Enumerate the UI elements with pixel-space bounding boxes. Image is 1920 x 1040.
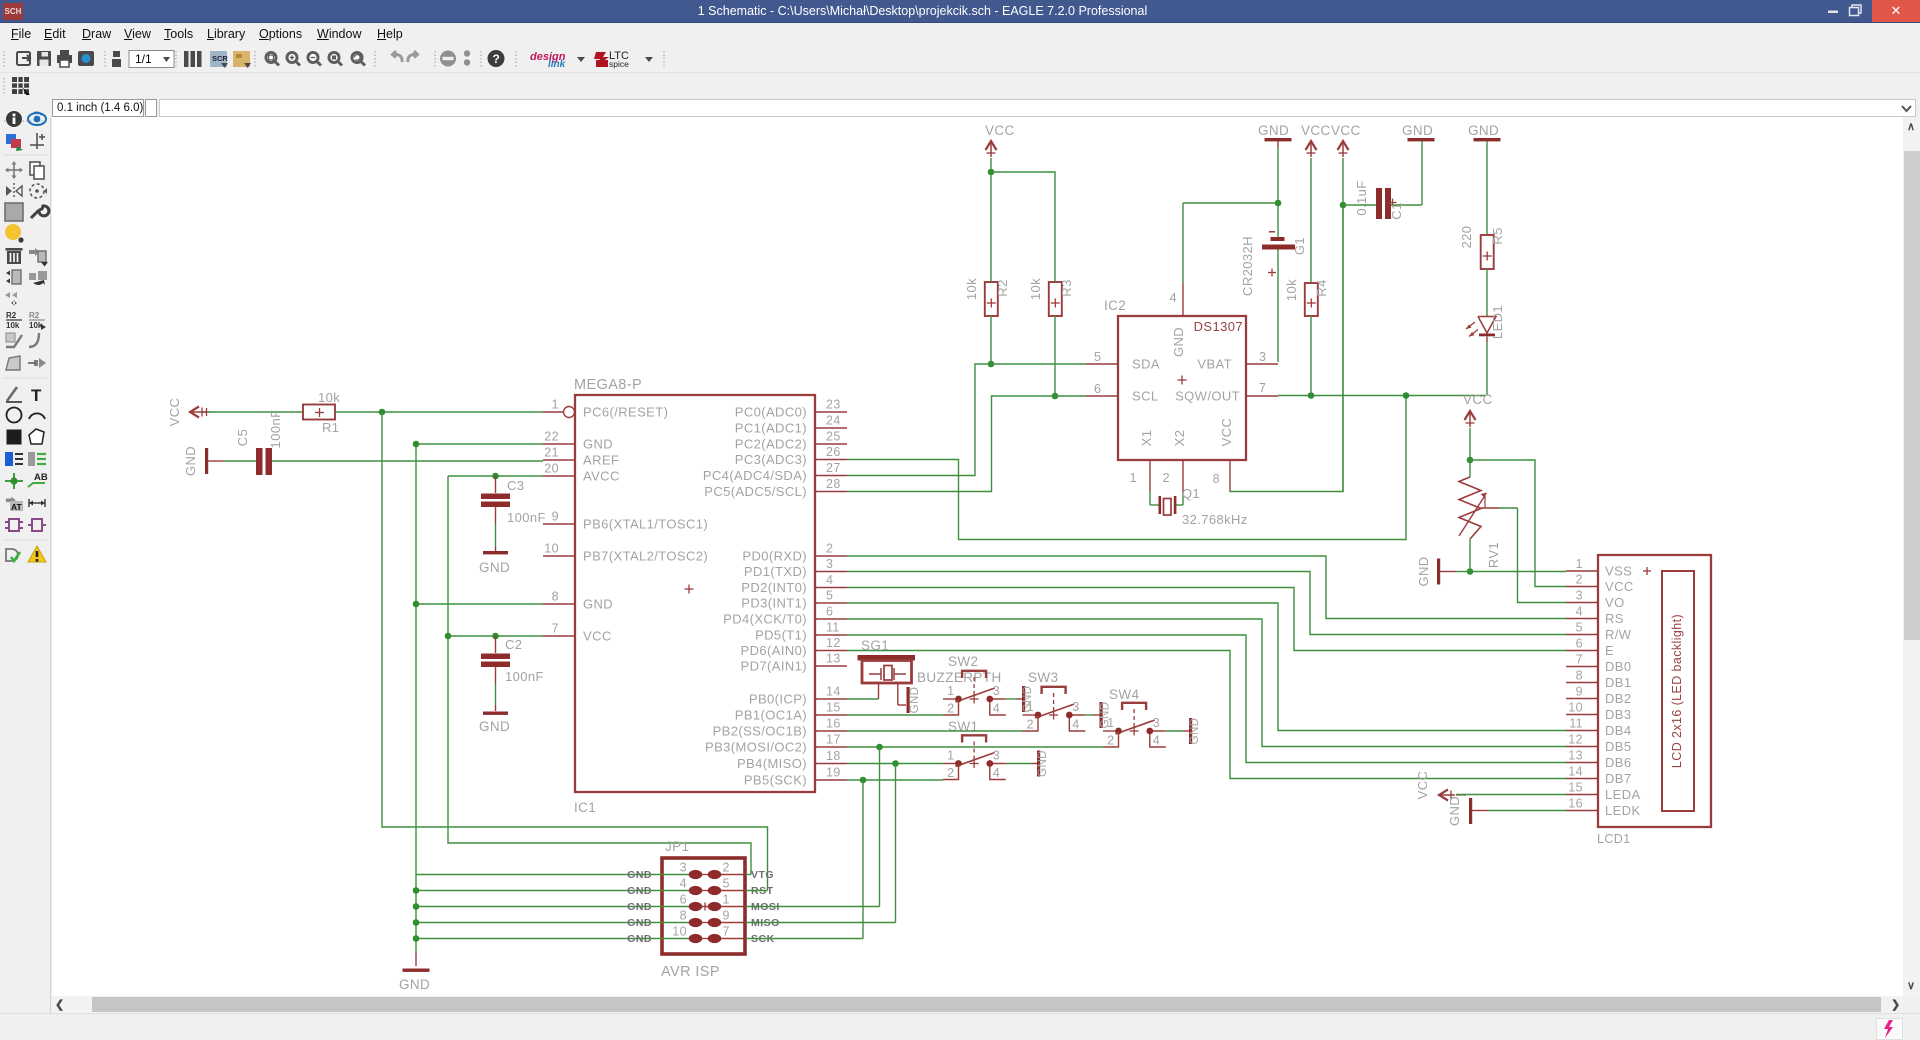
svg-text:2: 2 xyxy=(947,702,954,716)
svg-text:PD4(XCK/T0): PD4(XCK/T0) xyxy=(723,612,807,627)
svg-text:DB0: DB0 xyxy=(1605,659,1632,674)
svg-text:R/W: R/W xyxy=(1605,627,1632,642)
svg-text:VCC: VCC xyxy=(1463,392,1493,407)
svg-text:C3: C3 xyxy=(507,478,524,493)
svg-text:PD2(INT0): PD2(INT0) xyxy=(741,580,807,595)
svg-text:AB: AB xyxy=(34,472,48,483)
svg-text:2: 2 xyxy=(947,766,954,780)
svg-text:?: ? xyxy=(493,52,500,66)
svg-text:PB4(MISO): PB4(MISO) xyxy=(737,756,807,771)
svg-text:SQW/OUT: SQW/OUT xyxy=(1175,389,1240,404)
svg-text:GND: GND xyxy=(583,437,613,452)
svg-text:12: 12 xyxy=(1568,733,1583,747)
svg-text:100nF: 100nF xyxy=(507,510,546,525)
svg-text:LEDA: LEDA xyxy=(1605,787,1641,802)
svg-text:2: 2 xyxy=(1027,718,1034,732)
svg-text:8: 8 xyxy=(1576,669,1583,683)
svg-text:1: 1 xyxy=(947,684,954,698)
svg-text:6: 6 xyxy=(680,893,687,907)
svg-text:AVR ISP: AVR ISP xyxy=(661,964,720,980)
svg-text:4: 4 xyxy=(826,573,833,587)
svg-text:LCD1: LCD1 xyxy=(1597,832,1631,846)
svg-text:5: 5 xyxy=(1576,621,1583,635)
svg-text:PD1(TXD): PD1(TXD) xyxy=(744,564,807,579)
svg-text:25: 25 xyxy=(826,430,841,444)
svg-text:10k: 10k xyxy=(1284,279,1299,301)
svg-text:10k: 10k xyxy=(6,321,20,330)
svg-text:VCC: VCC xyxy=(1331,123,1361,138)
svg-text:GND: GND xyxy=(1100,702,1112,729)
svg-text:PC0(ADC0): PC0(ADC0) xyxy=(735,405,807,420)
svg-text:PD5(T1): PD5(T1) xyxy=(755,628,807,643)
svg-text:2: 2 xyxy=(723,861,730,875)
svg-text:DB7: DB7 xyxy=(1605,771,1632,786)
svg-text:PB5(SCK): PB5(SCK) xyxy=(744,773,807,788)
svg-text:5: 5 xyxy=(1094,350,1101,364)
svg-text:SW4: SW4 xyxy=(1109,687,1140,702)
svg-text:PB6(XTAL1/TOSC1): PB6(XTAL1/TOSC1) xyxy=(583,517,708,532)
svg-text:PB7(XTAL2/TOSC2): PB7(XTAL2/TOSC2) xyxy=(583,549,708,564)
svg-text:GND: GND xyxy=(1416,556,1431,586)
svg-text:R1: R1 xyxy=(322,420,339,435)
svg-text:VCC: VCC xyxy=(167,398,182,427)
svg-text:GND: GND xyxy=(1258,123,1289,138)
svg-text:16: 16 xyxy=(826,717,841,731)
svg-text:SDA: SDA xyxy=(1132,357,1160,372)
svg-text:3: 3 xyxy=(680,861,687,875)
svg-text:GND: GND xyxy=(1171,327,1186,357)
svg-text:GND: GND xyxy=(909,687,921,714)
svg-text:7: 7 xyxy=(552,622,559,636)
svg-text:11: 11 xyxy=(826,621,840,635)
svg-text:SW2: SW2 xyxy=(948,654,978,669)
svg-text:PD7(AIN1): PD7(AIN1) xyxy=(741,659,807,674)
svg-text:SCL: SCL xyxy=(1132,389,1159,404)
svg-text:LCD 2x16 (LED backlight): LCD 2x16 (LED backlight) xyxy=(1670,614,1684,768)
svg-text:7: 7 xyxy=(723,925,730,939)
svg-text:9: 9 xyxy=(723,909,730,923)
svg-text:R5: R5 xyxy=(1490,227,1505,244)
svg-text:GND: GND xyxy=(627,885,652,897)
svg-text:2: 2 xyxy=(826,542,833,556)
svg-text:C1: C1 xyxy=(1389,202,1404,219)
svg-text:VSS: VSS xyxy=(1605,564,1632,579)
svg-text:PB1(OC1A): PB1(OC1A) xyxy=(735,708,807,723)
svg-text:4: 4 xyxy=(993,766,1000,780)
svg-text:32.768kHz: 32.768kHz xyxy=(1182,512,1248,527)
svg-text:4: 4 xyxy=(993,702,1000,716)
svg-text:PB2(SS/OC1B): PB2(SS/OC1B) xyxy=(713,724,807,739)
svg-text:PD0(RXD): PD0(RXD) xyxy=(742,549,807,564)
svg-text:PC4(ADC4/SDA): PC4(ADC4/SDA) xyxy=(703,468,807,483)
svg-text:DB3: DB3 xyxy=(1605,707,1632,722)
svg-text:14: 14 xyxy=(826,685,841,699)
svg-text:GND: GND xyxy=(627,901,652,913)
svg-text:9: 9 xyxy=(1576,685,1583,699)
svg-text:1: 1 xyxy=(1130,471,1137,485)
svg-text:4: 4 xyxy=(1153,734,1160,748)
svg-text:R2: R2 xyxy=(6,311,17,320)
svg-text:BUZZERPTH: BUZZERPTH xyxy=(917,670,1002,685)
svg-text:3: 3 xyxy=(1072,700,1079,714)
svg-text:VCC: VCC xyxy=(1301,123,1331,138)
svg-text:SCR: SCR xyxy=(212,54,228,63)
svg-text:T: T xyxy=(31,386,42,405)
svg-text:10k: 10k xyxy=(1028,278,1043,300)
svg-text:3: 3 xyxy=(993,684,1000,698)
svg-text:Q1: Q1 xyxy=(1182,486,1200,501)
svg-text:PB3(MOSI/OC2): PB3(MOSI/OC2) xyxy=(705,740,807,755)
svg-text:8: 8 xyxy=(1213,472,1220,486)
svg-text:LEDK: LEDK xyxy=(1605,803,1641,818)
svg-text:PC2(ADC2): PC2(ADC2) xyxy=(735,437,807,452)
svg-text:4: 4 xyxy=(1170,291,1177,305)
svg-text:2: 2 xyxy=(1576,573,1583,587)
svg-text:28: 28 xyxy=(826,477,841,491)
svg-text:9: 9 xyxy=(552,510,559,524)
svg-text:PD3(INT1): PD3(INT1) xyxy=(741,596,807,611)
svg-text:E: E xyxy=(1605,643,1614,658)
svg-text:10: 10 xyxy=(1568,701,1583,715)
svg-text:2: 2 xyxy=(1163,471,1170,485)
svg-text:4: 4 xyxy=(1576,605,1583,619)
svg-text:1: 1 xyxy=(723,893,730,907)
svg-text:18: 18 xyxy=(826,749,841,763)
svg-text:JP1: JP1 xyxy=(665,839,689,854)
svg-text:SG1: SG1 xyxy=(861,638,889,653)
svg-text:100nF: 100nF xyxy=(505,669,544,684)
svg-text:DS1307: DS1307 xyxy=(1194,319,1243,334)
svg-text:4: 4 xyxy=(680,877,687,891)
svg-text:100nF: 100nF xyxy=(268,410,283,449)
svg-text:13: 13 xyxy=(1568,749,1583,763)
svg-text:220: 220 xyxy=(1459,226,1474,249)
svg-text:GND: GND xyxy=(583,597,613,612)
svg-text:VCC: VCC xyxy=(1219,418,1234,447)
svg-text:GND: GND xyxy=(1402,123,1433,138)
svg-text:spice: spice xyxy=(609,59,629,69)
svg-text:GND: GND xyxy=(1189,718,1201,745)
svg-text:GND: GND xyxy=(627,933,652,945)
svg-text:VBAT: VBAT xyxy=(1197,357,1232,372)
svg-text:5: 5 xyxy=(826,589,833,603)
svg-text:PD6(AIN0): PD6(AIN0) xyxy=(741,643,807,658)
svg-text:6: 6 xyxy=(826,605,833,619)
svg-text:11: 11 xyxy=(1569,717,1583,731)
svg-text:GND: GND xyxy=(479,719,510,734)
svg-text:10k: 10k xyxy=(29,321,43,330)
svg-text:RS: RS xyxy=(1605,611,1624,626)
svg-text:GND: GND xyxy=(183,446,198,476)
svg-text:8: 8 xyxy=(552,590,559,604)
svg-text:27: 27 xyxy=(826,461,841,475)
svg-text:2: 2 xyxy=(1107,734,1114,748)
svg-text:PC5(ADC5/SCL): PC5(ADC5/SCL) xyxy=(704,484,807,499)
svg-text:GND: GND xyxy=(1468,123,1499,138)
svg-text:GND: GND xyxy=(627,917,652,929)
svg-text:GND: GND xyxy=(1447,796,1462,826)
svg-text:LED1: LED1 xyxy=(1490,305,1505,339)
svg-text:VCC: VCC xyxy=(583,629,612,644)
svg-text:IC1: IC1 xyxy=(574,800,596,815)
svg-text:R4: R4 xyxy=(1314,279,1329,296)
svg-text:6: 6 xyxy=(1576,637,1583,651)
svg-text:15: 15 xyxy=(826,701,841,715)
svg-text:AT: AT xyxy=(11,502,23,512)
svg-text:8: 8 xyxy=(680,909,687,923)
svg-text:X1: X1 xyxy=(1139,430,1154,447)
svg-text:1: 1 xyxy=(552,398,559,412)
svg-text:26: 26 xyxy=(826,445,841,459)
svg-text:R3: R3 xyxy=(1059,279,1074,296)
svg-text:GND: GND xyxy=(627,869,652,881)
svg-text:C2: C2 xyxy=(505,637,522,652)
svg-text:SW1: SW1 xyxy=(948,719,978,734)
svg-text:1: 1 xyxy=(1576,557,1583,571)
svg-text:VO: VO xyxy=(1605,595,1625,610)
svg-text:PC6(/RESET): PC6(/RESET) xyxy=(583,405,668,420)
svg-text:3: 3 xyxy=(1153,716,1160,730)
svg-text:3: 3 xyxy=(826,557,833,571)
svg-text:X2: X2 xyxy=(1172,430,1187,447)
svg-text:16: 16 xyxy=(1568,797,1583,811)
svg-text:GND: GND xyxy=(1037,750,1049,777)
svg-text:5: 5 xyxy=(723,877,730,891)
svg-text:PC1(ADC1): PC1(ADC1) xyxy=(735,421,807,436)
svg-text:link: link xyxy=(548,59,566,70)
svg-text:24: 24 xyxy=(826,414,841,428)
svg-text:15: 15 xyxy=(1568,781,1583,795)
svg-text:DB1: DB1 xyxy=(1605,675,1632,690)
svg-text:10k: 10k xyxy=(318,390,340,405)
svg-text:19: 19 xyxy=(826,766,841,780)
svg-text:1: 1 xyxy=(947,749,954,763)
svg-text:DB5: DB5 xyxy=(1605,739,1632,754)
svg-text:3: 3 xyxy=(993,749,1000,763)
svg-text:RV1: RV1 xyxy=(1486,542,1501,568)
svg-text:DB4: DB4 xyxy=(1605,723,1632,738)
svg-text:MEGA8-P: MEGA8-P xyxy=(574,377,642,393)
svg-text:AREF: AREF xyxy=(583,453,619,468)
svg-text:SW3: SW3 xyxy=(1028,670,1058,685)
svg-text:6: 6 xyxy=(1094,382,1101,396)
svg-text:R2: R2 xyxy=(29,311,40,320)
svg-text:10: 10 xyxy=(672,925,687,939)
svg-text:23: 23 xyxy=(826,398,841,412)
svg-text:22: 22 xyxy=(544,430,559,444)
svg-text:VCC: VCC xyxy=(1415,771,1430,800)
svg-text:7: 7 xyxy=(1259,381,1266,395)
svg-text:3: 3 xyxy=(1576,589,1583,603)
svg-text:AVCC: AVCC xyxy=(583,469,620,484)
svg-text:14: 14 xyxy=(1568,765,1583,779)
svg-text:R2: R2 xyxy=(995,279,1010,296)
svg-text:7: 7 xyxy=(1576,653,1583,667)
svg-text:20: 20 xyxy=(544,462,559,476)
svg-text:10: 10 xyxy=(544,542,559,556)
svg-text:PC3(ADC3): PC3(ADC3) xyxy=(735,452,807,467)
svg-text:1/1: 1/1 xyxy=(135,52,152,66)
svg-text:3: 3 xyxy=(1259,350,1266,364)
svg-text:DB6: DB6 xyxy=(1605,755,1632,770)
svg-text:10k: 10k xyxy=(964,278,979,300)
svg-text:DB2: DB2 xyxy=(1605,691,1632,706)
svg-text:VTG: VTG xyxy=(751,869,774,881)
svg-text:CR2032H: CR2032H xyxy=(1240,236,1255,296)
svg-text:GND: GND xyxy=(399,977,430,992)
svg-text:13: 13 xyxy=(826,652,841,666)
svg-text:4: 4 xyxy=(1072,718,1079,732)
svg-text:17: 17 xyxy=(826,733,841,747)
svg-text:G1: G1 xyxy=(1292,237,1307,255)
svg-text:IC2: IC2 xyxy=(1104,298,1126,313)
svg-text:GND: GND xyxy=(479,560,510,575)
svg-text:GND: GND xyxy=(1022,686,1034,713)
svg-text:PB0(ICP): PB0(ICP) xyxy=(749,692,807,707)
svg-text:C5: C5 xyxy=(235,429,250,446)
svg-text:12: 12 xyxy=(826,636,841,650)
svg-text:VCC: VCC xyxy=(985,123,1015,138)
svg-text:VCC: VCC xyxy=(1605,579,1634,594)
svg-text:21: 21 xyxy=(544,446,559,460)
svg-text:0.1uF: 0.1uF xyxy=(1354,180,1369,215)
